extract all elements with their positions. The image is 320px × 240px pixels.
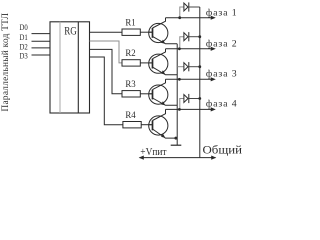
wire R3 to base Q3 [140,93,152,95]
register internal right divider [77,22,79,113]
resistor R2 [122,60,140,66]
wire R4 to base Q4 [141,124,152,126]
transistor Q1 [149,18,178,44]
node dot bus VD4 [198,97,201,100]
phase 4 wire with arrow [166,108,212,110]
phase 3 wire with arrow [166,78,212,80]
node dot phase1/VD1 [178,16,181,19]
wire RG out2 bus [90,41,123,63]
svg-text:фаза 1: фаза 1 [206,7,237,18]
common bus vertical [199,7,201,158]
node dot bus VD3 [198,65,201,68]
svg-text:R2: R2 [125,49,136,59]
node dot phase2 [178,47,181,50]
wire R1 to base Q1 [140,31,152,33]
node dot phase3 [178,78,181,81]
wire D0 to RG [32,33,51,35]
wire D1 to RG [32,40,51,42]
phase 1 wire with arrow [166,17,212,19]
diode VD1 [184,2,200,11]
svg-text:Параллельный код ТТЛ: Параллельный код ТТЛ [0,12,11,111]
diode VD4 anode riser [180,99,184,110]
diode VD3 anode feed [177,66,184,68]
node dot bus VD2 [198,35,201,38]
diode VD4 [184,94,200,103]
register internal left divider [59,22,61,113]
arrow Obshchiy (right) [211,156,216,160]
svg-text:фаза 3: фаза 3 [206,69,237,80]
resistor R4 [123,122,141,128]
phase 2 wire with arrow [166,48,212,50]
transistor Q4 [149,109,177,138]
svg-text:D3: D3 [20,51,28,61]
register U1 RG box [50,22,90,113]
wire RG out3 bus [90,49,123,93]
ground bar [171,144,182,146]
svg-text:фаза 4: фаза 4 [206,98,237,109]
svg-text:+Vпит: +Vпит [140,147,167,158]
svg-text:R1: R1 [125,18,136,28]
wire RG out1 to R1 [90,31,123,33]
wire R2 to base Q2 [140,62,152,64]
wire RG out4 bus [90,57,123,125]
diode VD3 [184,62,200,71]
resistor R1 [122,29,140,35]
transistor Q3 [149,79,178,105]
svg-text:R4: R4 [125,111,136,121]
svg-text:фаза 2: фаза 2 [206,39,237,50]
diode VD1 anode riser [180,7,184,18]
diode VD2 [184,32,200,41]
emitter common column [176,44,178,145]
arrow +Vpit (left) [139,156,144,160]
svg-text:R3: R3 [125,80,136,90]
wire D2 to RG [32,47,51,49]
ground node dot [174,137,177,140]
svg-text:D0: D0 [20,22,28,32]
svg-text:Общий: Общий [203,143,243,157]
bottom terminal line [140,157,216,159]
svg-text:RG: RG [64,25,77,37]
resistor R3 [122,91,140,97]
transistor Q2 [149,49,178,75]
wire D3 to RG [32,54,51,56]
diode VD2 anode riser [180,37,184,49]
node dot phase4 [178,108,181,111]
